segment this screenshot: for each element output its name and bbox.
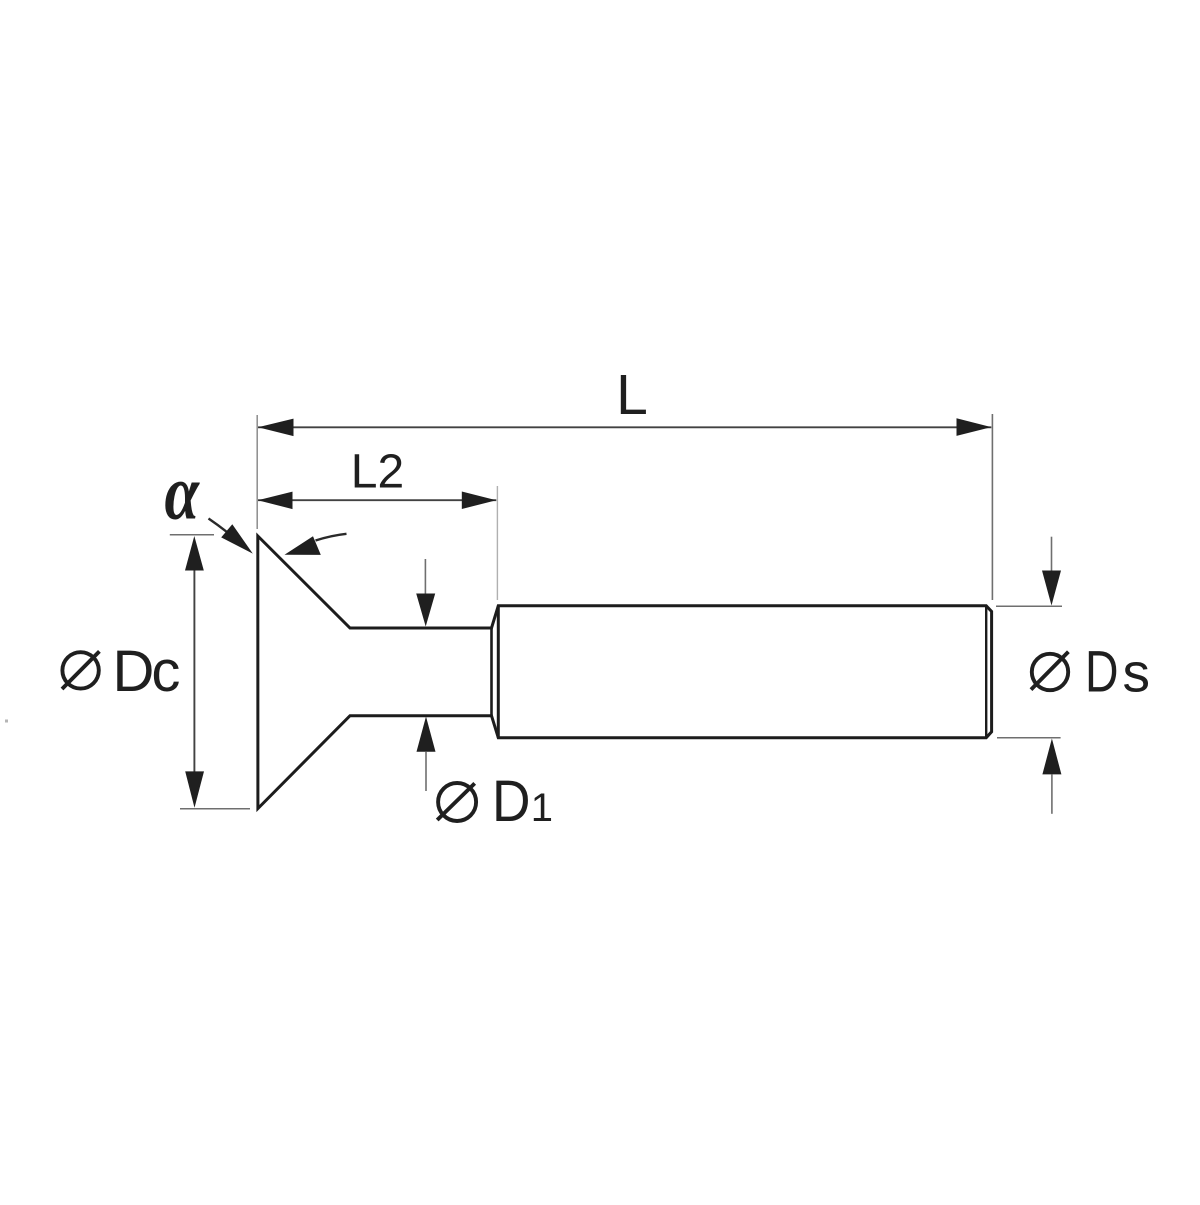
Dc dimension line	[193, 560, 195, 790]
label Dc diameter symbol	[62, 651, 99, 689]
D1 bottom arrow line	[425, 752, 427, 791]
leader line alpha	[209, 519, 228, 533]
arrow L2 left	[258, 492, 293, 510]
extension line right (for L)	[991, 414, 993, 600]
svg-text:D: D	[1085, 640, 1119, 705]
leader arrow angle-2	[285, 536, 321, 555]
shank end-face line	[985, 607, 987, 737]
label alpha	[165, 450, 200, 536]
leader arrow alpha	[221, 524, 253, 553]
Ds top arrow	[1042, 571, 1061, 606]
arrow L2 right	[462, 492, 497, 510]
Ds top tick	[996, 605, 1062, 607]
D1 top arrow line	[424, 559, 426, 594]
dimension line L2	[258, 499, 496, 501]
Ds bottom tick	[997, 737, 1061, 739]
svg-text:1: 1	[531, 786, 553, 830]
extension line for L2	[496, 486, 498, 600]
shank left edge	[497, 606, 500, 738]
Ds bottom arrow line	[1051, 774, 1053, 813]
dimension line L	[258, 426, 991, 428]
leader line angle-2	[316, 534, 347, 541]
Ds top arrow line	[1051, 537, 1053, 571]
label Ds diameter symbol	[1031, 652, 1068, 691]
arrow L right	[957, 418, 992, 436]
svg-text:Dc: Dc	[113, 639, 180, 704]
stray dot artifact	[5, 720, 8, 723]
arrow L left	[258, 419, 294, 437]
Dc top tick	[170, 534, 214, 536]
neck right edge	[490, 628, 493, 716]
Dc bottom tick	[180, 808, 250, 810]
label D1 diameter symbol	[437, 783, 476, 821]
Dc arrow down	[185, 771, 204, 807]
tool body outline	[258, 536, 992, 809]
svg-text:s: s	[1123, 642, 1151, 704]
D1 top arrow	[416, 594, 435, 627]
extension line left (for L)	[256, 415, 258, 529]
svg-text:α: α	[165, 450, 200, 536]
Ds bottom arrow	[1042, 739, 1061, 775]
D1 bottom arrow	[417, 717, 436, 752]
svg-text:L: L	[616, 363, 648, 427]
Dc arrow up	[185, 536, 204, 571]
svg-text:D: D	[492, 769, 531, 834]
svg-text:L2: L2	[351, 446, 404, 499]
